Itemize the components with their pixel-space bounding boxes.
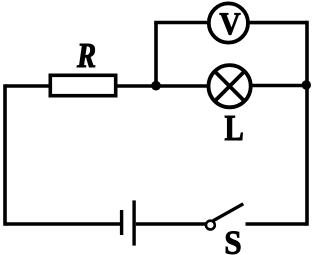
- battery BT1 short plate (negative): [120, 210, 123, 235]
- wire right vertical: [305, 23, 309, 224]
- wire resistor to junction A: [115, 84, 156, 88]
- battery BT1 long plate (positive): [132, 200, 135, 245]
- switch S pivot circle: [206, 221, 215, 230]
- label R: [77, 44, 95, 67]
- wire battery to switch: [136, 222, 206, 226]
- wire voltmeter branch horizontal to voltmeter: [156, 21, 210, 25]
- wire bottom-left horizontal (to battery): [5, 222, 120, 226]
- wire left vertical: [3, 86, 7, 224]
- wire switch to right vertical: [246, 222, 308, 226]
- junction node B (dot): [302, 80, 311, 89]
- resistor R: [50, 75, 115, 95]
- lamp L: [209, 65, 251, 107]
- wire junction A to lamp: [156, 84, 210, 88]
- label S: [226, 232, 240, 255]
- junction node A (dot): [151, 81, 161, 91]
- wire voltmeter to right vertical: [246, 21, 307, 25]
- wire voltmeter branch vertical: [154, 23, 158, 87]
- label L: [225, 116, 243, 140]
- switch S lever: [213, 204, 243, 221]
- voltmeter U1 (V): [209, 3, 248, 42]
- wire top-left horizontal (left vertical to resistor): [5, 84, 52, 88]
- wire lamp to junction B: [249, 84, 307, 88]
